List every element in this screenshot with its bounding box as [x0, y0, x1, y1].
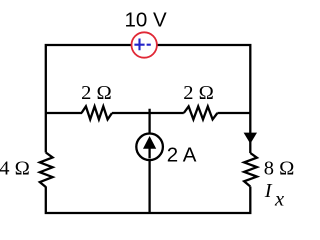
resistor R1 4ohm left vertical zigzag [40, 153, 53, 188]
svg-text:I: I [264, 180, 273, 202]
voltage source V1 circle [132, 32, 157, 57]
svg-text:8 Ω: 8 Ω [264, 157, 295, 179]
voltage source V1 minus sign [147, 44, 151, 46]
wire top-right from voltage source to right corner [157, 45, 250, 153]
svg-text:2 Ω: 2 Ω [183, 82, 214, 104]
current source I1 circle [136, 134, 163, 161]
svg-text:2 A: 2 A [167, 143, 197, 166]
voltage source V1 plus sign [134, 39, 150, 51]
resistor R4 8ohm right vertical zigzag [244, 153, 257, 187]
wire middle rail left segment [46, 112, 82, 114]
wire left-bottom, bottom rail, right-bottom [46, 187, 251, 214]
resistor R3 2ohm right horizontal zigzag [184, 106, 218, 119]
wire middle rail center segment [112, 112, 184, 114]
svg-text:10 V: 10 V [125, 9, 167, 32]
current source I1 arrow up [148, 146, 150, 158]
current direction arrowhead Ix on right branch [244, 133, 257, 144]
svg-text:2 Ω: 2 Ω [81, 82, 112, 104]
svg-text:x: x [274, 189, 284, 211]
resistor R2 2ohm left horizontal zigzag [82, 106, 113, 119]
wire center branch with junction stub [148, 109, 150, 213]
wire middle rail right segment [217, 112, 250, 114]
wire top-left from left corner to voltage source [46, 45, 132, 153]
svg-text:4 Ω: 4 Ω [0, 157, 30, 179]
